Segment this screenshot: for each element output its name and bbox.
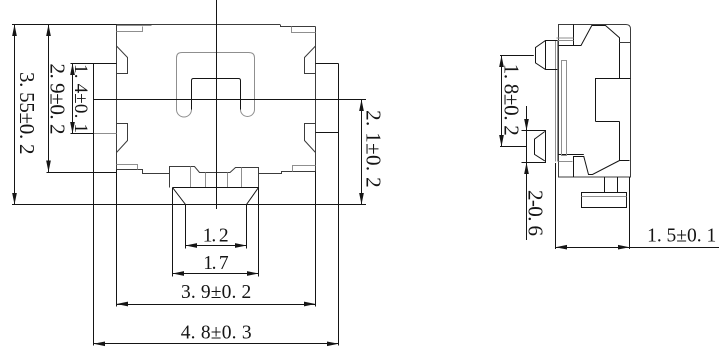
dimension 1.4 line [72, 64, 74, 134]
left view: pusher trapezoid top edge [173, 187, 259, 189]
left view: body left edge [116, 25, 118, 170]
dimension 1.8 bottom extension line [500, 146, 527, 148]
left view: U-shape left arm bottom cap [177, 110, 192, 118]
side view: stem neck lines [604, 177, 606, 193]
left view: left lead bottom edge [94, 133, 117, 135]
side view: lower lead bump outer rectangle [522, 131, 546, 163]
dimension 1.8 line [501, 56, 503, 147]
left view: horizontal centerline [94, 99, 367, 101]
left view: vertical centerline [216, 0, 218, 209]
svg-text:2. 1±0. 2: 2. 1±0. 2 [361, 110, 385, 188]
svg-text:2. 9±0. 2: 2. 9±0. 2 [45, 64, 69, 135]
svg-text:1. 5±0. 1: 1. 5±0. 1 [647, 226, 716, 247]
side view: bump2 bottom edge extension inside body [559, 161, 573, 163]
left view: bottom-left corner tab [117, 165, 138, 170]
dimension 1.7 line [173, 273, 259, 275]
left view: bottom-left chamfer mark [117, 124, 128, 153]
left view: switch body outline top edge [117, 24, 281, 26]
dimension 3.9 extension lines [116, 170, 118, 307]
svg-text:1. 8±0. 2: 1. 8±0. 2 [499, 64, 523, 136]
side view: button plate rectangle [582, 193, 627, 208]
dimension 2-0.6 lower arrow and leader [526, 163, 528, 241]
left view: top-left corner tab [117, 27, 143, 32]
left view: stem rib lines [190, 167, 192, 188]
dimension 1.2 line [186, 245, 247, 247]
dimension 2.1 line [361, 100, 363, 205]
side view: body outline rectangle [559, 25, 631, 178]
left view: pusher trapezoid right slant [247, 188, 259, 205]
left view: top-right chamfer mark [305, 46, 316, 74]
left view: central actuator U-shape outer contour [177, 53, 255, 110]
left view: left terminal lead top edge / 1.4 top extension [71, 63, 117, 65]
side view: front plate edges [555, 41, 557, 162]
left view: bottom-right corner tab [293, 166, 316, 172]
left view: bottom-right chamfer mark [305, 124, 316, 153]
left view: pusher trapezoid left slant [173, 188, 186, 205]
left view: top-right corner tab [292, 27, 316, 33]
dimension 1.8 top extension line [500, 55, 534, 57]
dimension 2.9 bottom extension line [47, 172, 117, 174]
svg-text:4. 8±0. 3: 4. 8±0. 3 [181, 322, 252, 343]
left view: body right edge [315, 27, 317, 172]
svg-text:3. 55±0. 2: 3. 55±0. 2 [15, 72, 39, 155]
left view: stem housing vertical edges [169, 167, 171, 188]
left view: right terminal lead [316, 64, 339, 133]
side view: cover-to-edge joint line [620, 42, 631, 44]
svg-text:1. 2: 1. 2 [203, 226, 229, 247]
left view: 1.4 bottom extension [71, 133, 94, 135]
dimension 1.5 extension lines [555, 163, 557, 249]
side view: cover profile lower part [558, 122, 630, 178]
svg-text:3. 9±0. 2: 3. 9±0. 2 [181, 282, 251, 303]
svg-text:1. 4±0. 1: 1. 4±0. 1 [70, 64, 91, 133]
side view: lower lead bump bullet [535, 132, 545, 161]
side view: cover profile upper part [559, 25, 620, 79]
svg-text:2-0. 6: 2-0. 6 [523, 190, 547, 236]
dimension 1.2 extension lines [185, 205, 187, 249]
svg-text:1. 7: 1. 7 [203, 253, 229, 274]
dimension 3.55 top extension line [12, 24, 117, 26]
dimension 3.55 line [14, 25, 16, 205]
left view: U-shape right arm bottom cap [241, 110, 255, 117]
dimension 1.5 line [556, 247, 720, 249]
left view: U-shape inner contour [192, 79, 241, 110]
dimension 4.8 line [94, 343, 339, 345]
dimension 3.9 line [117, 304, 316, 306]
left view: top-left chamfer mark [117, 46, 128, 74]
dimension 2.9 line [48, 25, 50, 173]
side view: center terminal block [596, 79, 631, 122]
left view: body bottom edge with steps and stem [117, 167, 316, 174]
side view: inner plate rectangle [562, 61, 567, 156]
side view: upper lead bump [536, 41, 558, 70]
left view: left lead outer edge / 4.8 extension line [93, 64, 95, 346]
side view: top-left corner step [557, 37, 574, 39]
dimension 2-0.6 upper arrow [526, 106, 528, 131]
dimension 3.55 bottom extension / pusher bottom line [12, 204, 366, 206]
side view: bump1 top edge extension inside body [558, 40, 574, 42]
dimension 1.7 extension lines [172, 188, 174, 277]
left view: right lead outer edge / 4.8 extension line [338, 64, 340, 346]
